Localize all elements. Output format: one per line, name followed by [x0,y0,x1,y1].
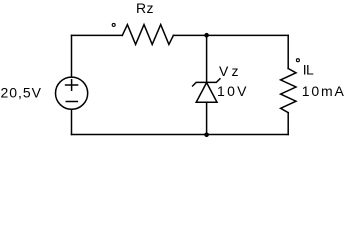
bottom wire [72,134,289,136]
svg-text:10V: 10V [217,83,247,99]
resistor Rz [122,25,173,45]
plus sign [66,84,78,86]
zener diode D1 cathode bar with bent ends [193,79,220,86]
wire right branch upper [287,35,289,68]
svg-text:Rz: Rz [136,0,154,16]
svg-text:Vz: Vz [219,63,239,79]
voltage source V1 circle [56,77,88,109]
wire left branch upper [71,35,73,77]
junction node bottom [204,133,209,138]
pin marker of IL [296,59,299,62]
pin marker of Rz [112,23,115,26]
wire right branch lower [287,113,289,135]
wire top-left horizontal [72,34,123,36]
wire left branch lower [71,109,73,134]
resistor IL (load) [281,69,296,113]
wire top-right horizontal [173,34,288,36]
wire middle branch upper [206,35,208,82]
minus sign [66,101,77,103]
wire middle branch lower [206,102,208,134]
zener diode D1 triangle [196,83,217,103]
svg-text:20,5V: 20,5V [1,84,42,100]
svg-text:10mA: 10mA [302,83,345,99]
svg-text:IL: IL [303,62,314,78]
junction node top [204,33,209,38]
